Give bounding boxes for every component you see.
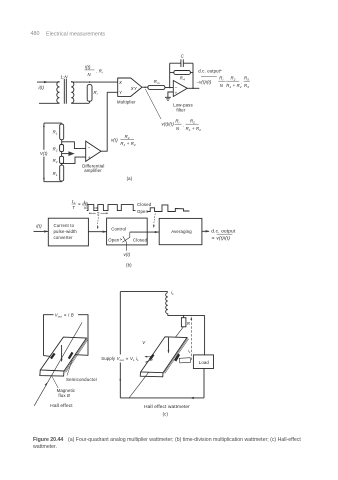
svg-text:−v(t)i(t): −v(t)i(t) xyxy=(196,80,212,85)
svg-text:Load: Load xyxy=(199,360,210,365)
svg-text:R2: R2 xyxy=(53,158,58,164)
svg-text:i(t): i(t) xyxy=(39,85,45,90)
svg-text:Supply Vout ∝ VL iL: Supply Vout ∝ VL iL xyxy=(101,356,139,362)
svg-text:Ri: Ri xyxy=(94,90,98,96)
svg-text:T: T xyxy=(97,211,100,216)
svg-text:R1 + R2: R1 + R2 xyxy=(186,126,202,132)
svg-text:i(t): i(t) xyxy=(85,65,91,70)
svg-text:R1 + R2: R1 + R2 xyxy=(120,141,136,147)
svg-text:Current to: Current to xyxy=(54,223,75,228)
svg-text:iL: iL xyxy=(171,290,174,296)
svg-text:Ri: Ri xyxy=(219,75,223,81)
svg-text:(c): (c) xyxy=(163,412,169,417)
svg-text:R4: R4 xyxy=(180,76,185,82)
svg-text:R4: R4 xyxy=(244,83,249,89)
svg-text:N: N xyxy=(176,126,180,131)
svg-text:R2: R2 xyxy=(231,75,236,81)
svg-text:i(t): i(t) xyxy=(36,224,42,229)
svg-text:d.c. output: d.c. output xyxy=(211,228,236,234)
svg-text:d.c. output*: d.c. output* xyxy=(198,68,222,73)
svg-text:R2: R2 xyxy=(125,134,130,140)
svg-text:flux B: flux B xyxy=(58,393,70,398)
svg-text:Hall effect: Hall effect xyxy=(50,403,73,408)
svg-text:Closed: Closed xyxy=(133,237,148,242)
svg-text:Multiplier: Multiplier xyxy=(117,100,136,105)
svg-text:converter: converter xyxy=(54,235,74,240)
svg-text:Rin: Rin xyxy=(154,79,160,85)
svg-text:−: − xyxy=(88,146,91,151)
svg-text:480: 480 xyxy=(31,31,40,37)
svg-text:R5: R5 xyxy=(244,75,249,81)
svg-text:Vout ∝ I B: Vout ∝ I B xyxy=(55,313,74,319)
svg-text:. Ri: . Ri xyxy=(96,69,103,75)
svg-text:R2: R2 xyxy=(53,146,58,152)
svg-text:(b): (b) xyxy=(126,263,132,268)
svg-text:.: . xyxy=(183,122,184,127)
svg-text:V: V xyxy=(142,340,146,345)
svg-text:R: R xyxy=(187,321,190,326)
svg-text:X: X xyxy=(118,80,122,85)
svg-text:wattmeter.: wattmeter. xyxy=(33,444,57,450)
svg-text:+: + xyxy=(88,155,91,160)
svg-text:filter: filter xyxy=(176,107,185,112)
svg-text:∝ v(t)i(t): ∝ v(t)i(t) xyxy=(211,236,230,242)
svg-text:N: N xyxy=(88,72,92,77)
svg-text:(a) Four-quadrant analog multi: (a) Four-quadrant analog multiplier watt… xyxy=(68,437,301,443)
svg-text:Open: Open xyxy=(108,237,120,242)
svg-text:Averaging: Averaging xyxy=(171,229,192,234)
svg-text:R1: R1 xyxy=(53,171,58,177)
svg-text:R1 + R2: R1 + R2 xyxy=(226,83,242,89)
svg-text:v(t): v(t) xyxy=(111,138,118,143)
svg-text:−: − xyxy=(175,85,178,90)
svg-text:iL: iL xyxy=(188,349,191,354)
svg-text:Hall effect wattmeter: Hall effect wattmeter xyxy=(144,404,190,409)
svg-text:V(t): V(t) xyxy=(40,151,48,156)
svg-text:+: + xyxy=(175,91,178,96)
svg-text:N: N xyxy=(220,83,224,88)
svg-text:amplifier: amplifier xyxy=(84,168,102,173)
svg-text:Figure 20.44: Figure 20.44 xyxy=(33,437,63,443)
svg-text:t1: t1 xyxy=(84,199,87,205)
svg-text:Ri: Ri xyxy=(175,118,179,124)
svg-text:v(t): v(t) xyxy=(124,252,131,257)
svg-text:.: . xyxy=(241,79,242,84)
svg-text:Closed: Closed xyxy=(137,202,152,207)
svg-text:R1: R1 xyxy=(53,130,58,136)
svg-text:Electrical measurements: Electrical measurements xyxy=(46,31,105,37)
svg-text:(a): (a) xyxy=(127,176,133,181)
svg-text:v(t)i(t): v(t)i(t) xyxy=(162,121,175,126)
svg-text:Semiconductor: Semiconductor xyxy=(66,377,98,382)
svg-text:Control: Control xyxy=(111,227,126,232)
svg-text:Open: Open xyxy=(137,209,149,214)
svg-text:C: C xyxy=(181,53,185,58)
svg-text:pulse-width: pulse-width xyxy=(54,229,78,234)
svg-text:1:N: 1:N xyxy=(61,75,69,80)
svg-text:T: T xyxy=(72,205,75,210)
svg-text:R2: R2 xyxy=(190,118,195,124)
svg-text:XY: XY xyxy=(130,86,138,91)
